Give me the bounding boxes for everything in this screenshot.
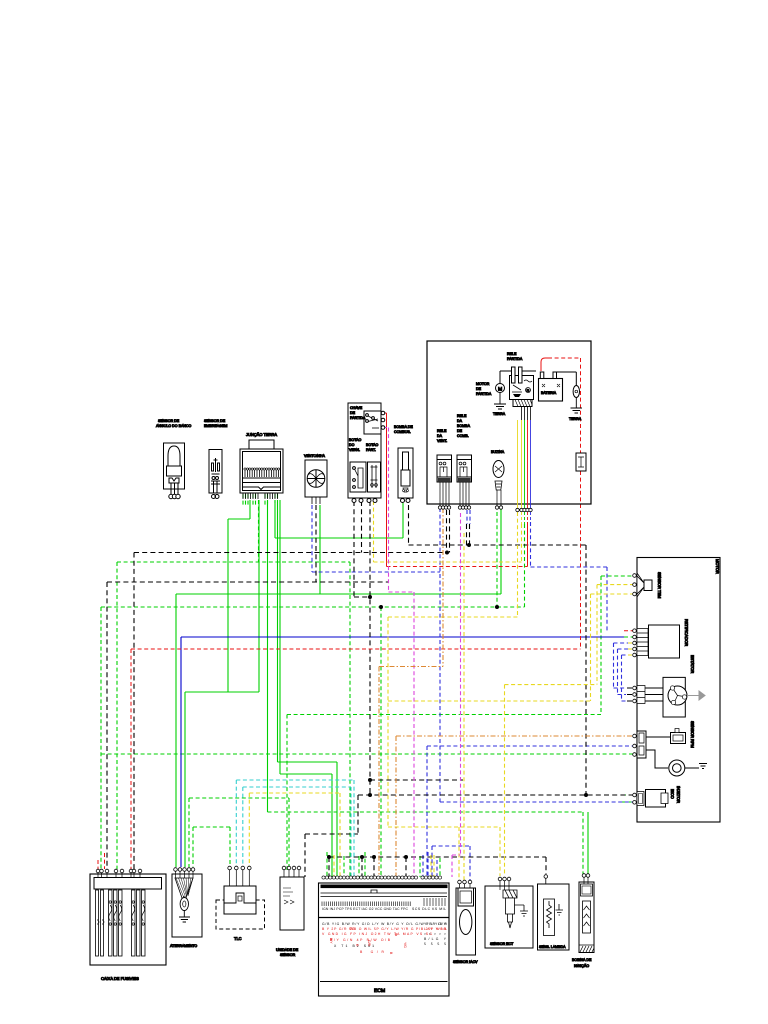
fuse at bateria right bbox=[573, 386, 579, 398]
svg-text:RELE: RELE bbox=[507, 352, 517, 356]
wire black y545 bus bbox=[409, 505, 587, 795]
wire junção terra vertical x272 bbox=[267, 500, 269, 812]
svg-text:VENTOINHA: VENTOINHA bbox=[304, 454, 326, 458]
wire blue dash sensor iacv bbox=[428, 846, 470, 882]
wire blue dash ventoinha-rele-bico bbox=[312, 505, 634, 802]
wire green stubs junção pins bbox=[243, 494, 278, 505]
svg-text:CAIXA DE FUSIVEIS: CAIXA DE FUSIVEIS bbox=[101, 976, 139, 981]
node dot (329,857) bbox=[327, 855, 331, 859]
node dot (586,795) bbox=[584, 793, 588, 797]
svg-text:BUZINA: BUZINA bbox=[491, 450, 505, 454]
relé da bomba de comb. bbox=[457, 414, 472, 509]
node dot (469,545) bbox=[467, 543, 471, 547]
svg-text:ATERRAMENTO: ATERRAMENTO bbox=[170, 944, 197, 948]
wire black chave partida vertical bbox=[354, 501, 370, 795]
bobina de ignição bbox=[572, 874, 594, 968]
buzina bbox=[491, 450, 505, 509]
unidade de sensor bbox=[276, 866, 304, 957]
relé partida + motor + bateria bbox=[476, 352, 586, 471]
wire green tips at bico/retificador bbox=[622, 637, 633, 802]
node dot (370,780) bbox=[368, 778, 372, 782]
connector under relé partida bbox=[513, 400, 532, 407]
svg-text:PARTIDA: PARTIDA bbox=[350, 416, 366, 420]
caixa de fusiveis bbox=[90, 869, 166, 981]
wire black estator tips bbox=[627, 688, 633, 701]
wire black y582 bus bbox=[107, 505, 389, 869]
wire green dash y812 to bobina bbox=[268, 812, 584, 875]
sensor de embreagem bbox=[204, 419, 227, 499]
svg-text:M: M bbox=[498, 387, 502, 393]
motor de partida M circle bbox=[496, 384, 505, 393]
svg-text:DE: DE bbox=[457, 429, 463, 433]
wire blue solid y637 retificador bbox=[181, 637, 624, 867]
ground motor terra bbox=[494, 393, 506, 410]
node dot (374,857) bbox=[372, 855, 376, 859]
svg-text:BATERIA: BATERIA bbox=[541, 391, 557, 395]
estator bbox=[633, 655, 705, 717]
bateria bbox=[539, 379, 563, 402]
node dot (406,857) bbox=[404, 855, 408, 859]
relé da vent. bbox=[437, 429, 452, 509]
sensor ect bbox=[485, 877, 533, 948]
svg-text:DA: DA bbox=[457, 419, 463, 423]
svg-text:INJETOR: INJETOR bbox=[676, 786, 681, 803]
svg-text:BOMBA: BOMBA bbox=[457, 424, 471, 428]
svg-text:RELE: RELE bbox=[437, 429, 447, 433]
svg-text:DE: DE bbox=[476, 387, 482, 391]
bomba de combustivel bbox=[394, 425, 413, 503]
svg-text:COMBUS.: COMBUS. bbox=[394, 430, 411, 434]
svg-text:TERRA: TERRA bbox=[493, 412, 506, 416]
svg-text:UNIDADE DE: UNIDADE DE bbox=[276, 948, 299, 952]
top relay box bbox=[427, 341, 591, 504]
wire green dash y827 aterramento-tlc bbox=[193, 827, 230, 868]
wire red stub fusebox bbox=[98, 853, 105, 869]
node dot (447,552) bbox=[445, 551, 449, 555]
wire black y857 ECM bus bbox=[329, 857, 546, 877]
wire green solid net bbox=[176, 500, 588, 877]
wire yellow chave-sensor tem3 bbox=[374, 501, 635, 701]
svg-text:26: 26 bbox=[350, 926, 355, 931]
svg-text:BOTAO: BOTAO bbox=[366, 443, 379, 447]
wire green dash y607 bus bbox=[101, 512, 525, 877]
svg-text:SENSOR RPM: SENSOR RPM bbox=[690, 721, 695, 748]
wire bomba combustivel y538 bbox=[275, 500, 403, 538]
wire orange relay1 to ECM y666 bbox=[379, 508, 443, 877]
relé partida relay box bbox=[510, 376, 534, 400]
wire cyan tlc-ecm pair bbox=[236, 780, 354, 877]
retificador bbox=[633, 619, 689, 658]
wire green dash y798 aterramento-unidade bbox=[189, 798, 289, 870]
node dot (370,597) bbox=[368, 595, 372, 599]
svg-text:PART.: PART. bbox=[366, 448, 376, 452]
svg-text:BOTAO: BOTAO bbox=[349, 438, 362, 442]
svg-text:B/Y: B/Y bbox=[329, 938, 333, 944]
svg-text:ESTATOR: ESTATOR bbox=[690, 655, 695, 673]
svg-text:PARTIDA: PARTIDA bbox=[507, 357, 523, 361]
wire magenta relay2 to ECM bbox=[452, 513, 461, 877]
svg-text:SENSOR: SENSOR bbox=[280, 953, 296, 957]
svg-text:EMBREAGEM: EMBREAGEM bbox=[204, 424, 227, 428]
svg-text:BICO: BICO bbox=[670, 789, 675, 799]
svg-text:CHAVE: CHAVE bbox=[350, 406, 363, 410]
sensor iacv bbox=[453, 880, 478, 964]
svg-text:DE: DE bbox=[350, 411, 356, 415]
wire junção terra ground y692 bbox=[185, 500, 259, 867]
sensor de angulo do banco bbox=[156, 419, 192, 499]
wire black y795 bico injetor bbox=[305, 795, 634, 877]
svg-text:ECM: ECM bbox=[374, 988, 385, 994]
ECM bbox=[319, 876, 450, 996]
svg-text:RETIFICADOR: RETIFICADOR bbox=[684, 619, 689, 646]
node dot (370,795) bbox=[368, 793, 372, 797]
wire red main feed y649 bbox=[131, 358, 581, 869]
wire green dash sensor tem y576/y714 bbox=[287, 576, 634, 870]
wire blue dash y746 sensor rpm pin2 bbox=[427, 746, 634, 877]
svg-text:PARTIDA: PARTIDA bbox=[476, 392, 492, 396]
wire buzina to aterramento y594 bbox=[176, 505, 501, 867]
svg-text:SENSOR DE: SENSOR DE bbox=[158, 419, 180, 423]
wire green stubs ECM bbox=[327, 852, 440, 877]
bico injetor bbox=[633, 786, 681, 807]
relé partida connector wires colored bbox=[518, 420, 531, 508]
svg-text:SENSOR IACV: SENSOR IACV bbox=[453, 960, 478, 964]
svg-text:BOBINA DE: BOBINA DE bbox=[572, 958, 592, 962]
svg-text:COMB.: COMB. bbox=[457, 434, 469, 438]
wire yellow stubs ECM bbox=[334, 855, 434, 877]
wire green dash y562 bus bbox=[117, 500, 350, 877]
wire yellow sensor tem2 - ect bbox=[505, 585, 635, 876]
sensor tem bbox=[633, 572, 662, 598]
svg-text:SENSOR ECT: SENSOR ECT bbox=[490, 942, 514, 946]
svg-text:VENT.: VENT. bbox=[437, 439, 447, 443]
svg-text:VERN.: VERN. bbox=[349, 448, 360, 452]
wire magenta chave partida to ECM bbox=[383, 428, 414, 878]
wire black y552 bus bbox=[134, 510, 447, 869]
wire green dash y754 sensor rpm bbox=[101, 753, 634, 755]
node dot (497,607) bbox=[495, 605, 499, 609]
TLC bbox=[216, 866, 265, 941]
wire red chave partida to relay connector y567 bbox=[387, 566, 528, 568]
wire orange sensor rpm pin1 y736 bbox=[396, 736, 634, 877]
svg-text:RELE: RELE bbox=[457, 414, 467, 418]
junction dots bbox=[327, 543, 588, 859]
svg-text:DO: DO bbox=[349, 443, 355, 447]
svg-text:SENS. LAMBDA: SENS. LAMBDA bbox=[539, 945, 566, 949]
svg-text:DA: DA bbox=[437, 434, 443, 438]
svg-text:G/R: G/R bbox=[367, 940, 371, 947]
ECM internal tiny codes bbox=[322, 907, 448, 955]
wire yellow tips retificador bbox=[628, 643, 633, 655]
sensor rpm bbox=[633, 721, 707, 776]
wire bobina green solid bbox=[587, 812, 589, 875]
svg-text:V GND IG FP INJ O2H TW: V GND IG FP INJ O2H TW TA MAP VS SG bbox=[322, 932, 432, 936]
aterramento bbox=[170, 868, 202, 948]
svg-text:SCS DLC KS MIL: SCS DLC KS MIL bbox=[412, 907, 446, 911]
wire junção terra to ECM y762 bbox=[278, 500, 338, 877]
wire yellow relay conn y617 y827 iacv/ect bbox=[388, 512, 518, 882]
node dot (381,607) bbox=[379, 605, 383, 609]
chave de partida assembly bbox=[348, 403, 385, 503]
svg-text:MOTOR: MOTOR bbox=[715, 559, 720, 574]
wire yellow tlc to ECM bbox=[249, 793, 340, 877]
wire black y780 buzina bbox=[370, 779, 463, 781]
svg-text:TERRA: TERRA bbox=[569, 417, 582, 421]
svg-text:SENSOR TEM: SENSOR TEM bbox=[657, 572, 662, 598]
svg-text:ANGULO DO BANCO: ANGULO DO BANCO bbox=[156, 424, 192, 428]
sens. lambda bbox=[538, 875, 570, 950]
wire blue stubs ECM bbox=[423, 510, 470, 877]
fuse on red feed bbox=[576, 453, 586, 471]
motor box bbox=[637, 558, 720, 823]
wire blue dash estator loops bbox=[614, 643, 629, 701]
svg-text:Y/BR G/V: Y/BR G/V bbox=[424, 922, 447, 926]
svg-text:IGN INJ PCP TPS ECT IAC O2 VCC: IGN INJ PCP TPS ECT IAC O2 VCC GND TAC F… bbox=[322, 907, 409, 911]
junção terra bbox=[240, 432, 283, 499]
svg-text:IGNIÇÃO: IGNIÇÃO bbox=[574, 963, 589, 968]
svg-text:Y/G: Y/G bbox=[403, 942, 407, 948]
svg-text:TLC: TLC bbox=[234, 936, 242, 941]
svg-text:SENSOR DE: SENSOR DE bbox=[204, 419, 226, 423]
svg-text:MOTOR: MOTOR bbox=[476, 382, 490, 386]
ventoinha bbox=[304, 454, 327, 504]
wire red tip retificador pin1 bbox=[624, 630, 633, 632]
svg-text:R: R bbox=[527, 388, 530, 393]
svg-text:BOMBA DE: BOMBA DE bbox=[394, 425, 413, 429]
wire blue dash y566 retificador pin1 bbox=[531, 522, 608, 631]
node dot (362,857) bbox=[360, 855, 364, 859]
svg-text:JUNÇÃO TERRA: JUNÇÃO TERRA bbox=[246, 432, 277, 437]
wire red solid chave terminal bbox=[381, 358, 548, 567]
